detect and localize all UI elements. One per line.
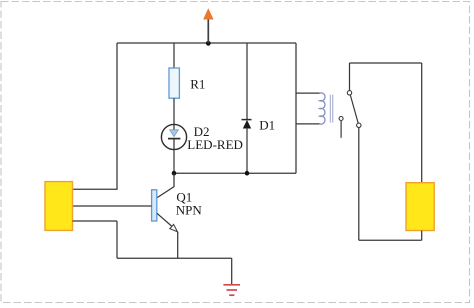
node junction at supply bbox=[206, 41, 211, 46]
wire relay bottom stub bbox=[296, 123, 320, 125]
node junction D1 bottom bbox=[245, 171, 250, 176]
wire right load vertical bbox=[421, 63, 423, 183]
LED D2 bbox=[161, 124, 243, 152]
relay switch contacts bbox=[339, 91, 361, 138]
node junction LED/collector bbox=[172, 171, 177, 176]
wire switch circuit bottom rail bbox=[359, 239, 422, 241]
wire left vertical bbox=[116, 43, 118, 189]
wire switch circuit top rail bbox=[350, 62, 422, 64]
wire D1 top lead bbox=[246, 43, 248, 120]
svg-text:NPN: NPN bbox=[176, 203, 203, 218]
connector block left (yellow) bbox=[45, 182, 73, 231]
svg-text:LED-RED: LED-RED bbox=[187, 137, 243, 152]
wire ground lead bbox=[231, 258, 233, 285]
wire load bottom lead bbox=[421, 231, 423, 241]
wire switch common down bbox=[358, 128, 360, 241]
wire top horizontal rail bbox=[117, 42, 296, 44]
transistor Q1 bbox=[152, 173, 203, 232]
load block right (yellow) bbox=[406, 183, 434, 231]
wire R1 top lead bbox=[173, 43, 175, 68]
ground bbox=[223, 285, 240, 295]
wire R1 to LED bbox=[173, 98, 175, 124]
wire relay top stub bbox=[296, 92, 320, 94]
wire pin3 vertical down bbox=[116, 221, 118, 258]
wire connector pin1 to left vertical bbox=[73, 188, 118, 190]
wire bottom ground rail bbox=[117, 257, 232, 259]
svg-text:R1: R1 bbox=[190, 77, 205, 92]
power supply arrow bbox=[203, 8, 214, 43]
resistor R1 bbox=[169, 68, 205, 98]
svg-text:D1: D1 bbox=[259, 117, 275, 132]
wire D1 bottom lead bbox=[246, 128, 248, 173]
wire bottom rail of loop bbox=[174, 172, 297, 174]
wire emitter down bbox=[177, 232, 179, 258]
wire LED to collector node bbox=[173, 150, 175, 174]
wire right vertical of loop bbox=[295, 43, 297, 173]
diode D1 bbox=[242, 117, 276, 132]
wire connector pin3 lead bbox=[73, 220, 118, 222]
wire switch top lead bbox=[349, 63, 351, 91]
relay coil RL1 bbox=[320, 93, 333, 124]
wire base lead bbox=[73, 205, 152, 207]
